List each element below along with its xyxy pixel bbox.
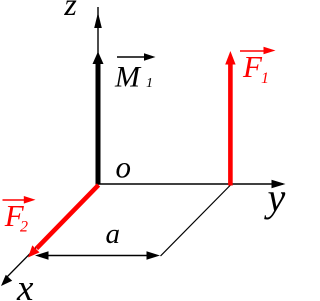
vector M1 arrowhead: [93, 52, 104, 65]
svg-text:F: F: [242, 49, 263, 84]
svg-text:o: o: [116, 150, 132, 185]
vector F2 shaft (red, along x): [37, 185, 99, 249]
x-axis arrowhead: [1, 275, 12, 286]
label F2 with vector bar (red): [3, 196, 36, 236]
node B: parallelogram right edge from y-axis corner down-left: [161, 185, 232, 257]
dimension a right arrowhead: [147, 251, 161, 259]
dimension a line: [44, 255, 151, 257]
svg-text:1: 1: [261, 70, 269, 87]
label F1 with vector bar (red): [240, 47, 276, 87]
vector M1 shaft (thick, along z): [96, 64, 101, 185]
svg-text:a: a: [106, 218, 121, 250]
vector F1 shaft (red, vertical): [228, 64, 233, 186]
vector F2 arrowhead: [28, 245, 40, 257]
label M1 with vector bar: [114, 53, 156, 93]
y-axis line: [98, 183, 283, 185]
svg-text:z: z: [63, 0, 77, 22]
z-axis line: [97, 7, 99, 185]
svg-text:y: y: [264, 175, 286, 220]
wire: x-axis line from origin down-left: [5, 185, 98, 280]
dimension a left arrowhead: [35, 251, 49, 259]
vector F1 arrowhead: [225, 51, 235, 65]
y-axis arrowhead: [272, 180, 286, 188]
z-axis arrowhead: [94, 13, 102, 29]
svg-text:2: 2: [20, 219, 28, 236]
svg-text:1: 1: [146, 76, 153, 91]
svg-text:x: x: [16, 268, 34, 301]
svg-text:M: M: [114, 61, 142, 94]
